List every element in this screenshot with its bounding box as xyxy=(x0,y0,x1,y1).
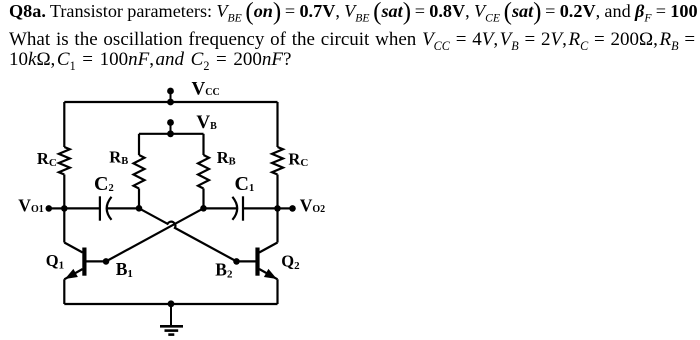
svg-text:C1: C1 xyxy=(235,173,255,195)
node B2 xyxy=(233,258,240,265)
wire RB right upper xyxy=(202,134,204,155)
svg-text:RB: RB xyxy=(109,147,128,167)
transistor Q1 xyxy=(64,243,106,280)
wire cross diagonal left junction to B2 (with hop) xyxy=(139,208,237,261)
wire RB left upper xyxy=(138,134,140,155)
capacitor C2 xyxy=(100,196,112,220)
transistor Q2 xyxy=(237,243,278,280)
svg-text:B2: B2 xyxy=(215,260,233,281)
node C2-RB junction xyxy=(136,205,143,212)
svg-text:VO1: VO1 xyxy=(18,195,43,215)
wire VB rail xyxy=(139,133,204,135)
svg-text:RC: RC xyxy=(288,150,308,170)
node VO1 xyxy=(46,205,68,212)
wire RB right lower xyxy=(202,189,204,209)
wire VO1 stub xyxy=(49,207,65,209)
wire VO2 stub xyxy=(278,207,293,209)
svg-text:C2: C2 xyxy=(94,173,114,195)
capacitor C1 xyxy=(232,196,243,220)
wire C1 to right branch xyxy=(243,207,278,209)
wire C2 to RB junction xyxy=(107,207,139,209)
svg-text:Q1: Q1 xyxy=(46,251,64,272)
wire Q2 emitter to rail xyxy=(276,279,278,304)
node C1-RB junction xyxy=(200,205,207,212)
wire bottom rail xyxy=(64,303,277,305)
resistor RC right xyxy=(272,147,283,175)
wire right branch middle xyxy=(276,175,278,243)
svg-text:RB: RB xyxy=(217,148,236,168)
node VO2 xyxy=(274,205,296,212)
resistor RC left xyxy=(59,147,70,175)
wire VO1 to C2 xyxy=(64,207,100,209)
resistor RB right xyxy=(198,155,209,188)
svg-text:Q2: Q2 xyxy=(281,252,300,273)
problem text line 1 xyxy=(9,0,698,22)
wire cross diagonal B1 to right junction xyxy=(106,208,204,261)
svg-text:VCC: VCC xyxy=(192,78,220,99)
node B1 xyxy=(103,258,110,265)
wire right branch upper xyxy=(276,102,278,147)
wire RB junction to C1 xyxy=(204,207,237,209)
wire left branch upper xyxy=(63,102,65,147)
svg-text:B1: B1 xyxy=(116,259,133,280)
wire RB left lower xyxy=(138,189,140,209)
wire top VCC rail xyxy=(64,101,277,103)
wire left branch middle xyxy=(63,175,65,243)
problem text line 3 xyxy=(9,49,291,71)
node ground junction xyxy=(168,300,175,307)
problem text line 2 xyxy=(9,29,695,51)
ground xyxy=(160,304,183,335)
resistor RB left xyxy=(134,155,145,188)
wire Q1 emitter to rail xyxy=(63,279,65,304)
svg-text:VO2: VO2 xyxy=(300,195,325,215)
node VCC terminal xyxy=(167,88,174,106)
svg-text:RC: RC xyxy=(37,149,57,169)
svg-text:VB: VB xyxy=(196,112,217,133)
node VB terminal xyxy=(167,119,174,137)
